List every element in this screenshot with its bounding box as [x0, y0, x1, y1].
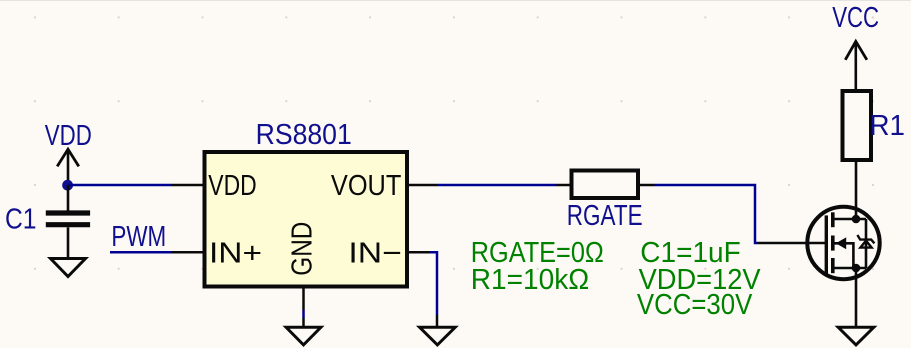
junction dot drain [852, 215, 861, 224]
svg-text:R1=10kΩ: R1=10kΩ [471, 264, 589, 296]
pin IN+ of U1 [171, 251, 205, 254]
svg-text:VOUT: VOUT [331, 170, 402, 202]
svg-text:RS8801: RS8801 [256, 119, 352, 151]
ground under Q1 [838, 327, 874, 345]
ground under C1 [51, 259, 86, 277]
power symbol VCC [832, 2, 879, 91]
wire GND stub [302, 310, 305, 318]
power symbol VDD [45, 120, 92, 185]
ground pin IN- net [436, 315, 439, 327]
pin GND of U1 [302, 287, 305, 311]
wire IN- to ground [430, 252, 438, 315]
svg-text:IN−: IN− [348, 237, 401, 269]
svg-text:C1: C1 [5, 203, 37, 235]
ground under IN- [420, 327, 456, 345]
ground symbol pin [302, 318, 305, 327]
pin VOUT of U1 [407, 184, 437, 187]
svg-text:VCC: VCC [832, 2, 879, 34]
svg-text:RGATE: RGATE [567, 200, 643, 232]
junction dot node VDD [62, 180, 73, 191]
IC U1 RS8801 body [205, 152, 408, 287]
wire R1 to drain of Q1 [855, 160, 858, 219]
pin IN- of U1 [407, 251, 430, 254]
svg-text:VDD: VDD [208, 170, 256, 202]
pin VDD of U1 [171, 184, 205, 187]
wire PWM to U1 [110, 251, 171, 254]
resistor R1 [843, 91, 906, 160]
wire VDD net to U1 [68, 184, 171, 187]
svg-text:R1: R1 [870, 110, 906, 142]
svg-text:PWM: PWM [111, 221, 166, 253]
ground under U1 [286, 327, 321, 345]
wire source to ground [855, 268, 858, 327]
svg-text:VCC=30V: VCC=30V [637, 289, 753, 321]
junction dot source [852, 264, 861, 273]
wire RGATE to gate of Q1 [655, 185, 758, 243]
resistor RGATE [557, 171, 655, 232]
wire VOUT to RGATE [437, 184, 557, 187]
svg-text:IN+: IN+ [209, 237, 262, 269]
capacitor C1 [5, 185, 90, 259]
svg-text:GND: GND [286, 222, 318, 276]
transistor Q1 NMOS [757, 207, 880, 279]
